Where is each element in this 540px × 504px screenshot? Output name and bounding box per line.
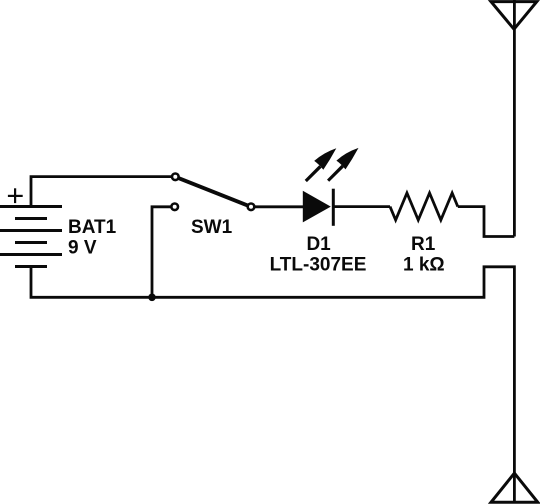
svg-text:R1: R1 — [411, 234, 436, 255]
svg-text:9 V: 9 V — [68, 238, 97, 259]
svg-text:BAT1: BAT1 — [68, 217, 117, 238]
svg-text:LTL-307EE: LTL-307EE — [270, 254, 367, 275]
svg-text:D1: D1 — [306, 234, 331, 255]
svg-text:SW1: SW1 — [191, 217, 233, 238]
svg-text:1 kΩ: 1 kΩ — [403, 255, 445, 276]
